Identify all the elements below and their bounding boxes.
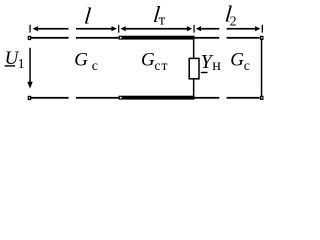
top conductor wire (left section, first dash) <box>31 37 69 39</box>
svg-text:с: с <box>92 59 98 74</box>
svg-text:G: G <box>74 50 88 71</box>
svg-text:с: с <box>244 59 250 74</box>
dimension tick at x=194 <box>193 25 194 33</box>
svg-text:G: G <box>230 50 244 71</box>
bottom conductor wire (left section, second dash) <box>76 97 119 99</box>
top conductor wire (right section, second dash) <box>227 37 260 39</box>
bottom conductor wire (left section, first dash) <box>31 97 69 99</box>
load resistor box Y_n <box>189 58 199 78</box>
input terminal bottom-left (open square) <box>28 96 32 100</box>
bottom stub conductor thick bar <box>119 96 195 100</box>
dimension line segment l_2 (left part) <box>200 28 219 30</box>
dimension tick at x=30 <box>29 25 30 33</box>
top conductor wire (left section, second dash) <box>76 37 119 39</box>
dimension arrow right of segment l_t <box>187 26 192 31</box>
svg-text:2: 2 <box>230 15 237 30</box>
underline of Y_n <box>201 72 208 73</box>
svg-text:н: н <box>212 57 221 74</box>
dimension line segment l_t <box>125 28 188 30</box>
bottom conductor wire (right section, second dash) <box>227 97 260 99</box>
top stub conductor thick bar <box>119 36 195 40</box>
input terminal top-left (open square) <box>28 36 32 40</box>
white dot terminal on top thick bar <box>120 37 122 39</box>
dimension arrow right of segment l <box>112 26 117 31</box>
svg-text:т: т <box>159 13 166 29</box>
dimension line segment l (left part) <box>37 28 69 30</box>
output terminal bottom-right (open square) <box>260 96 264 100</box>
top conductor wire (right section, first dash) <box>195 37 220 39</box>
right end vertical wire <box>261 40 263 97</box>
dimension arrow left of segment l_2 <box>196 26 201 31</box>
underline of U1 <box>5 65 16 66</box>
dimension tick at x=118.6 <box>118 25 119 33</box>
svg-text:ст: ст <box>154 59 168 74</box>
load top lead wire <box>193 40 195 58</box>
bottom conductor wire (right section, first dash) <box>195 97 220 99</box>
dimension arrow left of segment l_t <box>120 26 125 31</box>
voltage U1 arrow shaft <box>29 48 31 83</box>
dimension arrow left of segment l <box>33 26 38 31</box>
svg-text:1: 1 <box>18 57 25 72</box>
dimension line segment l (right part) <box>76 28 112 30</box>
dimension arrow right of segment l_2 <box>255 26 260 31</box>
voltage U1 arrowhead (down) <box>27 82 32 89</box>
dimension line segment l_2 (right part) <box>227 28 256 30</box>
dimension tick at x=262 <box>262 25 263 33</box>
svg-text:G: G <box>141 50 155 71</box>
white dot terminal on bottom thick bar <box>120 97 122 99</box>
output terminal top-right (open square) <box>260 36 264 40</box>
load bottom lead wire <box>193 79 195 96</box>
